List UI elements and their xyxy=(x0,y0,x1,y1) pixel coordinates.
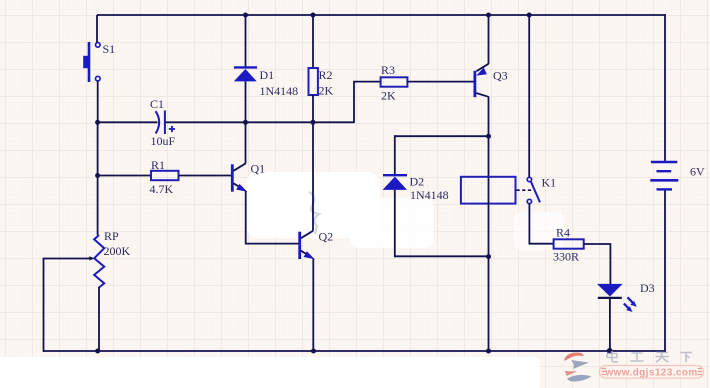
char 天 xyxy=(656,353,670,363)
svg-text:RP: RP xyxy=(104,229,119,243)
wire: C1 row left xyxy=(97,121,158,123)
svg-text:2K: 2K xyxy=(319,84,334,98)
relay coil K1 xyxy=(461,177,516,204)
wire: D2 left upper xyxy=(394,135,396,175)
relay contact K1 xyxy=(517,177,541,203)
wire: LED to bottom rail xyxy=(609,298,611,352)
wire: coil through xyxy=(488,177,490,257)
resistor R3 xyxy=(381,77,408,86)
resistor R1 xyxy=(151,171,179,180)
diode D1 1N4148 xyxy=(234,67,257,81)
svg-text:S1: S1 xyxy=(103,42,116,56)
wire: right rail battery to bottom xyxy=(664,190,666,353)
svg-text:Q1: Q1 xyxy=(251,162,266,176)
capacitor C1 xyxy=(156,111,175,135)
wire: D2 bottom left xyxy=(394,190,396,257)
wire: bottom rail xyxy=(44,350,666,352)
svg-text:C1: C1 xyxy=(150,97,164,111)
wire: contact bottom to R4 xyxy=(529,204,553,244)
resistor R2 xyxy=(309,68,318,95)
resistor R4 xyxy=(554,239,584,248)
wire: D1 to C1 row xyxy=(245,81,247,123)
wire: left bracket from RP wiper to bottom rail xyxy=(44,259,89,353)
char 下 xyxy=(680,353,692,363)
svg-text:10uF: 10uF xyxy=(151,134,176,148)
potentiometer RP xyxy=(88,235,104,288)
wire: top rail down to S1 xyxy=(96,15,98,43)
url pill xyxy=(600,366,704,379)
wire: top rail down to D1 xyxy=(245,15,247,67)
transistor Q2 xyxy=(300,231,315,260)
svg-text:K1: K1 xyxy=(542,176,557,190)
LED D3 xyxy=(597,284,637,312)
svg-text:330R: 330R xyxy=(553,250,579,264)
wire: top power rail xyxy=(97,14,665,16)
wire: R3 to Q3 base xyxy=(407,81,473,83)
logo swirl xyxy=(564,352,584,361)
battery 6V xyxy=(650,162,678,189)
wire: Q2 emitter to bottom rail xyxy=(312,258,314,352)
diode D2 1N4148 xyxy=(383,175,407,190)
svg-text:1N4148: 1N4148 xyxy=(410,188,449,202)
wire: R2 bottom through C1 row to Q2 collector xyxy=(312,95,314,231)
svg-text:4.7K: 4.7K xyxy=(150,182,174,196)
svg-text:6V: 6V xyxy=(690,165,705,179)
wire: top rail down to Q3 emitter xyxy=(488,15,490,64)
svg-text:D3: D3 xyxy=(640,281,655,295)
wire: coil bottom to bottom rail xyxy=(488,257,490,352)
svg-text:R1: R1 xyxy=(151,158,165,172)
transistor Q3 (PNP) xyxy=(475,64,489,97)
svg-text:R3: R3 xyxy=(381,63,395,77)
wire: C1 row up to R3 xyxy=(354,82,381,123)
svg-text:www.dgjs123.com: www.dgjs123.com xyxy=(604,368,697,379)
bottom-right watermark xyxy=(564,351,704,381)
svg-text:D1: D1 xyxy=(260,68,275,82)
wire: D2 top link xyxy=(395,135,489,137)
wire: R4 to LED corner xyxy=(584,244,611,284)
wire: Q1 emitter down and to Q2 base xyxy=(246,191,299,244)
wire: left vertical C1row to RP xyxy=(97,122,99,235)
wire: RP bottom to rail xyxy=(98,287,100,352)
svg-text:R2: R2 xyxy=(319,68,333,82)
char 电 xyxy=(607,351,618,362)
wire: R1 row from left vertical xyxy=(98,175,151,177)
wire: C1 row to Q1 collector xyxy=(245,122,247,163)
wire: S1 to C1 row xyxy=(97,81,99,123)
wire: top rail down to R2 xyxy=(312,15,314,68)
transistor Q1 xyxy=(232,163,247,192)
svg-text:200K: 200K xyxy=(104,244,131,258)
svg-text:R4: R4 xyxy=(556,226,570,240)
wire: C1 row right xyxy=(166,121,355,123)
char 工 xyxy=(631,353,644,361)
wire: right rail upper to battery xyxy=(664,14,666,162)
svg-text:D2: D2 xyxy=(410,175,425,189)
wire: Q3 collector down to relay coil xyxy=(488,97,490,178)
watermark ghost blobs xyxy=(0,172,564,388)
wire: D2 bottom link xyxy=(395,255,489,257)
svg-text:Q3: Q3 xyxy=(493,69,508,83)
svg-text:Q2: Q2 xyxy=(319,230,334,244)
wire: top rail down to K1 contact xyxy=(528,15,530,177)
wire: R1 to Q1 base xyxy=(179,175,232,177)
svg-text:2K: 2K xyxy=(381,89,396,103)
svg-text:1N4148: 1N4148 xyxy=(260,84,299,98)
switch S1 xyxy=(83,42,100,82)
